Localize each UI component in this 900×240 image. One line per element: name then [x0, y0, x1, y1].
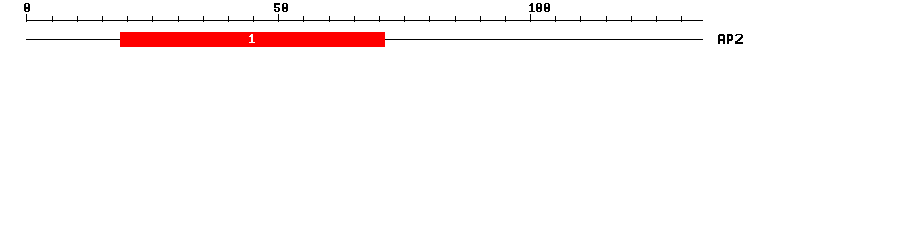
sequence line — [26, 39, 703, 40]
ruler label 0 — [24, 3, 30, 12]
ruler minor tick — [52, 16, 53, 22]
ruler minor tick — [429, 16, 430, 22]
ruler minor tick — [555, 16, 556, 22]
ruler minor tick — [404, 16, 405, 22]
ruler major tick 0 — [26, 14, 27, 22]
ruler minor tick — [253, 16, 254, 22]
ruler minor tick — [656, 16, 657, 22]
ruler minor tick — [77, 16, 78, 22]
ruler minor tick — [152, 16, 153, 22]
ruler minor tick — [178, 16, 179, 22]
ruler minor tick — [127, 16, 128, 22]
ruler minor tick — [681, 16, 682, 22]
ruler minor tick — [102, 16, 103, 22]
ruler minor tick — [480, 16, 481, 22]
background — [0, 0, 900, 58]
domain box 1 (red) — [120, 32, 385, 47]
ruler label 50 — [274, 3, 288, 12]
ruler minor tick — [303, 16, 304, 22]
ruler line — [26, 20, 703, 21]
ruler minor tick — [606, 16, 607, 22]
ruler minor tick — [455, 16, 456, 22]
ruler minor tick — [505, 16, 506, 22]
ruler minor tick — [580, 16, 581, 22]
ruler minor tick — [631, 16, 632, 22]
ruler minor tick — [379, 16, 380, 22]
ruler label 100 — [529, 3, 550, 12]
track label AP2 — [718, 34, 743, 44]
ruler major tick 100 — [530, 14, 531, 22]
ruler minor tick — [203, 16, 204, 22]
ruler minor tick — [329, 16, 330, 22]
domain box label 1 — [249, 34, 255, 43]
ruler minor tick — [354, 16, 355, 22]
ruler minor tick — [228, 16, 229, 22]
ruler major tick 50 — [278, 14, 279, 22]
